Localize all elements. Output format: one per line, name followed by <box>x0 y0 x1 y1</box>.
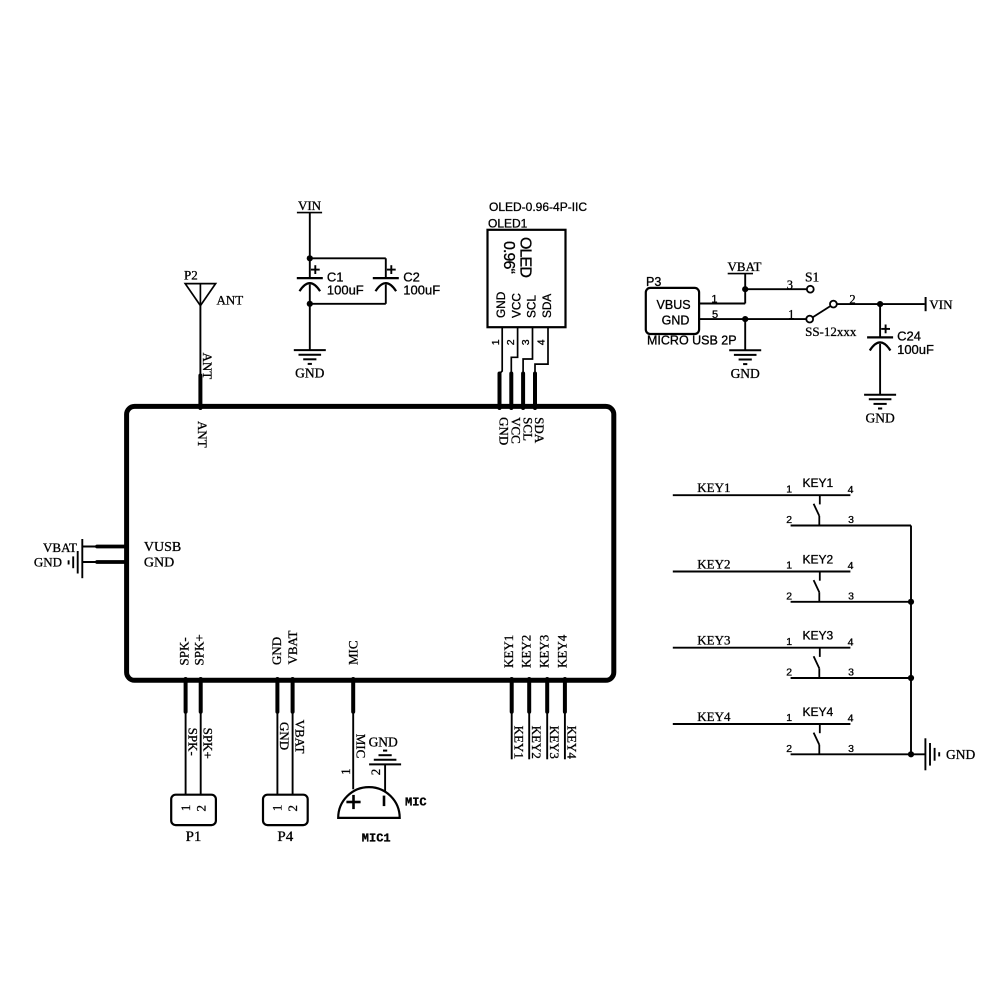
svg-text:P4: P4 <box>277 829 293 845</box>
svg-text:VIN: VIN <box>298 198 322 213</box>
svg-text:1: 1 <box>711 294 717 306</box>
svg-text:1: 1 <box>786 560 792 572</box>
svg-text:VCC: VCC <box>509 293 523 318</box>
svg-text:2: 2 <box>285 805 300 812</box>
svg-text:VBAT: VBAT <box>728 259 762 274</box>
svg-text:3: 3 <box>848 667 854 679</box>
svg-text:KEY3: KEY3 <box>697 633 730 648</box>
svg-text:VBAT: VBAT <box>285 630 300 664</box>
svg-text:ANT: ANT <box>195 421 210 448</box>
svg-text:4: 4 <box>848 484 854 496</box>
svg-text:SDA: SDA <box>540 294 554 318</box>
svg-text:SPK+: SPK+ <box>200 728 215 759</box>
svg-text:P2: P2 <box>184 267 198 282</box>
svg-text:KEY2: KEY2 <box>803 552 834 566</box>
svg-text:3: 3 <box>848 514 854 526</box>
svg-text:GND: GND <box>369 734 398 749</box>
svg-text:MIC1: MIC1 <box>362 831 391 845</box>
svg-text:4: 4 <box>848 713 854 725</box>
svg-text:KEY2: KEY2 <box>697 556 730 571</box>
svg-text:1: 1 <box>338 768 353 775</box>
svg-text:GND: GND <box>946 747 975 762</box>
svg-text:OLED: OLED <box>516 237 533 277</box>
svg-text:SPK+: SPK+ <box>191 634 206 665</box>
svg-text:3: 3 <box>787 278 793 292</box>
svg-text:KEY1: KEY1 <box>697 480 730 495</box>
svg-text:1: 1 <box>786 483 792 495</box>
svg-text:1: 1 <box>178 805 193 812</box>
svg-text:1: 1 <box>786 636 792 648</box>
svg-text:GND: GND <box>865 410 894 425</box>
svg-text:2: 2 <box>786 667 792 679</box>
svg-text:VBUS: VBUS <box>657 298 691 312</box>
svg-text:GND: GND <box>662 313 690 327</box>
svg-text:P3: P3 <box>646 275 661 289</box>
svg-text:VBAT: VBAT <box>43 540 77 555</box>
svg-text:KEY2: KEY2 <box>529 726 544 759</box>
svg-text:GND: GND <box>295 366 324 381</box>
svg-text:ANT: ANT <box>217 292 244 307</box>
svg-text:2: 2 <box>786 514 792 526</box>
svg-text:SPK-: SPK- <box>185 728 200 756</box>
svg-text:KEY1: KEY1 <box>501 635 516 668</box>
svg-text:2: 2 <box>368 769 383 776</box>
svg-text:OLED1: OLED1 <box>488 217 528 231</box>
svg-text:0.96“: 0.96“ <box>500 241 517 274</box>
svg-text:KEY4: KEY4 <box>554 634 569 668</box>
svg-text:2: 2 <box>786 743 792 755</box>
svg-text:KEY1: KEY1 <box>512 726 527 759</box>
svg-text:4: 4 <box>848 560 854 572</box>
svg-text:2: 2 <box>505 339 517 345</box>
svg-text:GND: GND <box>269 637 284 665</box>
svg-text:MIC: MIC <box>346 640 361 665</box>
svg-text:100uF: 100uF <box>403 283 440 298</box>
svg-text:5: 5 <box>712 309 718 321</box>
svg-text:GND: GND <box>144 555 174 570</box>
svg-text:P1: P1 <box>186 829 202 845</box>
svg-text:KEY2: KEY2 <box>519 635 534 668</box>
svg-text:OLED-0.96-4P-IIC: OLED-0.96-4P-IIC <box>489 200 587 214</box>
svg-text:GND: GND <box>494 292 508 318</box>
svg-text:KEY3: KEY3 <box>537 635 552 668</box>
svg-text:KEY4: KEY4 <box>565 726 580 760</box>
svg-text:KEY3: KEY3 <box>547 726 562 759</box>
svg-text:GND: GND <box>34 555 62 570</box>
svg-text:S1: S1 <box>805 270 819 285</box>
svg-text:2: 2 <box>193 805 208 812</box>
svg-text:100uF: 100uF <box>897 342 934 357</box>
svg-text:MIC: MIC <box>405 796 427 810</box>
svg-text:SCL: SCL <box>524 295 538 318</box>
svg-text:ANT: ANT <box>200 353 215 380</box>
svg-text:4: 4 <box>536 339 548 345</box>
svg-text:KEY3: KEY3 <box>803 629 834 643</box>
svg-text:4: 4 <box>848 636 854 648</box>
svg-text:SS-12xxx: SS-12xxx <box>805 324 857 339</box>
svg-text:2: 2 <box>786 590 792 602</box>
svg-text:KEY4: KEY4 <box>697 709 731 724</box>
svg-text:VIN: VIN <box>929 297 953 312</box>
svg-text:VUSB: VUSB <box>144 540 181 555</box>
svg-text:1: 1 <box>490 339 502 345</box>
svg-text:3: 3 <box>520 339 532 345</box>
svg-text:GND: GND <box>731 366 760 381</box>
svg-text:1: 1 <box>270 805 285 812</box>
svg-text:SPK-: SPK- <box>176 637 191 665</box>
svg-text:MICRO USB 2P: MICRO USB 2P <box>647 334 737 348</box>
svg-text:MIC: MIC <box>354 734 369 759</box>
svg-text:1: 1 <box>786 712 792 724</box>
svg-text:SDA: SDA <box>532 417 547 444</box>
svg-text:1: 1 <box>788 307 794 321</box>
svg-text:KEY1: KEY1 <box>803 476 834 490</box>
svg-text:KEY4: KEY4 <box>803 705 834 719</box>
svg-text:VBAT: VBAT <box>292 720 307 754</box>
svg-text:100uF: 100uF <box>327 283 364 298</box>
svg-text:3: 3 <box>848 743 854 755</box>
svg-text:3: 3 <box>848 590 854 602</box>
svg-text:GND: GND <box>277 722 292 750</box>
